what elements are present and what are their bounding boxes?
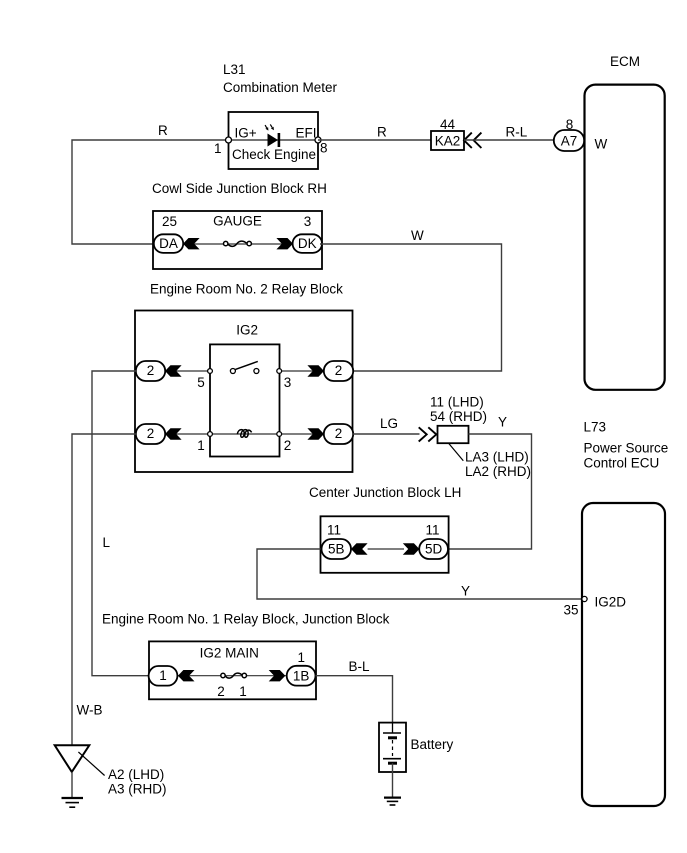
wire triangle to ground <box>71 772 73 798</box>
svg-text:L: L <box>103 535 111 550</box>
svg-text:Battery: Battery <box>411 737 454 752</box>
wire inside ig2 main <box>177 675 286 677</box>
pin 2 circle <box>277 432 282 437</box>
battery box <box>379 723 406 772</box>
connector 1 capsule <box>149 666 178 686</box>
svg-text:IG2: IG2 <box>236 322 258 337</box>
svg-text:1: 1 <box>159 668 167 683</box>
wire inside gauge block <box>181 243 293 245</box>
pin 8 circle (meter right) <box>315 137 321 143</box>
pin 35 circle <box>582 596 587 601</box>
battery plate - short <box>388 736 397 739</box>
svg-text:A3 (RHD): A3 (RHD) <box>108 782 167 797</box>
svg-text:3: 3 <box>304 214 312 229</box>
wire Y from connector to center junction block <box>449 434 532 549</box>
svg-text:Engine Room No. 1 Relay Block,: Engine Room No. 1 Relay Block, Junction … <box>102 611 390 626</box>
arrow right top-right <box>307 365 324 376</box>
svg-text:B-L: B-L <box>349 659 371 674</box>
svg-text:Y: Y <box>461 584 470 599</box>
svg-text:8: 8 <box>320 141 328 156</box>
svg-text:2: 2 <box>147 363 155 378</box>
SECTION: relay block <box>72 282 353 746</box>
connector box LA3/LA2 <box>438 426 469 443</box>
svg-text:5D: 5D <box>425 541 443 556</box>
connector DK capsule <box>293 234 322 253</box>
svg-text:1: 1 <box>298 650 306 665</box>
svg-text:IG2 MAIN: IG2 MAIN <box>200 646 259 661</box>
svg-text:Cowl Side Junction Block RH: Cowl Side Junction Block RH <box>152 181 327 196</box>
svg-text:L73: L73 <box>584 420 607 435</box>
SECTION: top meter circuit <box>72 62 584 244</box>
battery dashed center <box>392 740 394 756</box>
ECM box <box>585 85 665 390</box>
svg-text:KA2: KA2 <box>435 134 461 149</box>
junction block box (GAUGE) <box>153 211 322 269</box>
svg-text:GAUGE: GAUGE <box>213 214 262 229</box>
svg-text:2: 2 <box>284 438 292 453</box>
relay switch contacts <box>230 369 235 374</box>
LED arrows (pointing to diode) <box>265 124 272 128</box>
center junction block box <box>321 516 449 573</box>
svg-text:DK: DK <box>298 236 317 251</box>
wire bottom row mid <box>210 433 280 435</box>
svg-text:W: W <box>595 137 608 152</box>
svg-text:LA2 (RHD): LA2 (RHD) <box>465 464 531 479</box>
svg-text:Engine Room No. 2 Relay Block: Engine Room No. 2 Relay Block <box>150 282 343 297</box>
fuse GAUGE symbol <box>224 241 228 245</box>
wire LG from relay to connector <box>353 433 420 435</box>
arrow left at DA <box>183 238 200 249</box>
chevron arrows << at KA2 <box>464 133 481 148</box>
svg-text:11: 11 <box>327 522 341 537</box>
L73 ECU box <box>582 503 665 806</box>
svg-text:L31: L31 <box>223 62 246 77</box>
SECTION: gauge block <box>152 181 502 371</box>
connector KA2 box <box>431 131 464 150</box>
arrow left top-left <box>165 365 182 376</box>
svg-text:Center Junction Block LH: Center Junction Block LH <box>309 485 461 500</box>
svg-text:35: 35 <box>563 603 578 618</box>
arrow left at 5B <box>351 543 368 554</box>
arrow right at 5D <box>403 543 420 554</box>
svg-text:25: 25 <box>162 214 177 229</box>
svg-text:Y: Y <box>498 415 507 430</box>
relay block outer box <box>135 311 353 473</box>
wire R-L from KA2 to A7 <box>464 139 555 141</box>
svg-text:44: 44 <box>440 117 456 132</box>
wire B-L from 1B to battery <box>316 676 393 723</box>
wire inside meter <box>229 139 319 141</box>
IG2 MAIN block box <box>149 641 316 699</box>
ground (battery) <box>384 798 401 805</box>
svg-text:R-L: R-L <box>506 125 528 140</box>
svg-text:W: W <box>411 228 424 243</box>
svg-text:1: 1 <box>214 141 222 156</box>
connector 1B capsule <box>287 666 316 686</box>
wire R from node to combination meter <box>72 140 229 244</box>
SECTION: ig2 main + battery + grounds <box>55 611 454 807</box>
arrow right bottom-right <box>307 428 324 439</box>
wire W-B from bottom-left capsule down to ground triangle <box>72 434 136 745</box>
SECTION: ecm boxes <box>563 54 668 806</box>
svg-text:1B: 1B <box>293 668 310 683</box>
ground (W-B) <box>62 798 84 807</box>
pin 3 circle <box>277 369 282 374</box>
connector 5D capsule <box>419 539 448 559</box>
svg-text:Control ECU: Control ECU <box>584 456 660 471</box>
svg-text:Power Source: Power Source <box>584 441 669 456</box>
connector A7 capsule <box>554 130 584 151</box>
wire top row right <box>280 370 325 372</box>
arrow right at DK <box>276 238 293 249</box>
SECTION: lg connector + center junction <box>257 395 585 600</box>
svg-text:2: 2 <box>335 426 343 441</box>
wire bottom row right <box>280 433 325 435</box>
battery plate + long 2 <box>383 758 401 760</box>
svg-text:11 (LHD): 11 (LHD) <box>430 395 484 410</box>
svg-text:LG: LG <box>380 416 398 431</box>
connector capsule 2 bottom-left <box>136 424 165 444</box>
arrow right at 1B <box>269 670 286 681</box>
relay coil <box>237 430 251 438</box>
svg-text:LA3 (LHD): LA3 (LHD) <box>465 450 529 465</box>
LED lamp D1 (check engine) <box>268 134 279 147</box>
wire R meter to KA2 <box>318 139 431 141</box>
svg-text:2: 2 <box>147 426 155 441</box>
connector DA capsule <box>154 234 183 253</box>
wire bottom row left <box>165 433 210 435</box>
connector capsule 2 bottom-right <box>324 424 353 444</box>
wire Y from 5B to ECU pin 35 <box>257 549 585 599</box>
svg-text:1: 1 <box>239 684 247 699</box>
svg-text:A7: A7 <box>561 134 578 149</box>
svg-text:5B: 5B <box>328 541 345 556</box>
connector capsule 2 top-right <box>324 361 353 381</box>
fuse IG2 MAIN symbol <box>221 673 225 677</box>
svg-text:A2 (LHD): A2 (LHD) <box>108 767 164 782</box>
svg-text:IG2D: IG2D <box>595 595 627 610</box>
wire between arrows <box>368 548 404 550</box>
arrow left at 1 <box>178 670 195 681</box>
battery plate + long <box>383 732 401 734</box>
svg-text:R: R <box>377 125 387 140</box>
relay switch arm <box>235 361 257 369</box>
battery internal wire top <box>392 723 394 733</box>
pointer line to LA labels <box>449 443 464 461</box>
svg-text:11: 11 <box>425 522 439 537</box>
chevron arrows >> <box>419 427 437 441</box>
svg-text:3: 3 <box>284 375 292 390</box>
svg-text:R: R <box>158 123 168 138</box>
battery plate - short 2 <box>388 762 397 765</box>
ground triangle connector A2/A3 <box>55 745 90 772</box>
svg-text:Combination Meter: Combination Meter <box>223 80 338 95</box>
wire battery to ground <box>392 763 394 797</box>
pin 1 circle <box>208 432 213 437</box>
svg-text:54 (RHD): 54 (RHD) <box>430 409 487 424</box>
wire L from top-left capsule down to IG2 MAIN <box>92 371 149 676</box>
svg-text:ECM: ECM <box>610 54 640 69</box>
connector 5B capsule <box>322 539 352 559</box>
pin 1 circle (meter left) <box>226 137 232 143</box>
svg-text:IG+: IG+ <box>235 126 257 141</box>
svg-text:Check Engine: Check Engine <box>232 147 316 162</box>
connector capsule 2 top-left <box>136 361 165 381</box>
svg-text:W-B: W-B <box>77 703 103 718</box>
svg-text:1: 1 <box>197 438 205 453</box>
svg-text:5: 5 <box>197 375 205 390</box>
relay IG2 inner box <box>210 344 280 456</box>
pin 5 circle <box>208 369 213 374</box>
svg-text:2: 2 <box>335 363 343 378</box>
combination meter box L31 <box>229 112 319 169</box>
wire top row left <box>165 370 210 372</box>
svg-text:EFI: EFI <box>296 126 317 141</box>
pointer line to A2/A3 labels <box>78 752 104 776</box>
svg-text:DA: DA <box>159 236 178 251</box>
svg-text:2: 2 <box>217 684 225 699</box>
arrow left bottom-left <box>165 428 182 439</box>
wire W from DK to relay block <box>320 244 502 371</box>
